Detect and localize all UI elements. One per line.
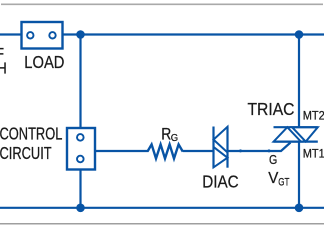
wire joint nub (268, 149, 271, 152)
wire: bottom rail (0, 207, 324, 209)
wire: from top-left junction down to control-circuit box (79, 35, 81, 129)
svg-text:CONTROL: CONTROL (0, 125, 62, 144)
resistor RG (zigzag) (147, 144, 182, 158)
label VGT (268, 170, 289, 189)
wire: top rail left into load (0, 33, 22, 35)
wire joint nub (239, 149, 242, 152)
DIAC D1 (214, 127, 228, 168)
triac (symbol) (274, 127, 318, 141)
node C (bottom-left junction) (76, 204, 85, 213)
svg-text:R: R (161, 125, 171, 143)
wire: from control-circuit box down to bottom rail (79, 170, 81, 208)
node B (top-right junction) (295, 30, 304, 39)
node D (bottom-right junction) (295, 204, 304, 213)
svg-text:V: V (268, 170, 279, 187)
svg-text:CIRCUIT: CIRCUIT (0, 144, 52, 163)
wire: resistor to DIAC (183, 150, 214, 152)
wire: MT2 lead (top rail to triac) (298, 35, 300, 128)
svg-text:GT: GT (278, 176, 289, 188)
svg-text:G: G (269, 152, 277, 167)
svg-text:MT2: MT2 (303, 110, 324, 122)
top grey rule (1, 3, 323, 5)
svg-text:MT1: MT1 (303, 148, 324, 160)
load L1 (box with two terminals) (22, 22, 63, 49)
bottom grey rule (0, 223, 324, 225)
control circuit box (two terminals) (67, 128, 95, 170)
wire: control box to resistor (95, 150, 148, 152)
svg-text:G: G (171, 133, 178, 144)
node A (top-left junction) (76, 30, 85, 39)
wire: top rail from load to right edge (63, 33, 324, 35)
svg-text:DIAC: DIAC (202, 172, 238, 192)
svg-text:H: H (0, 60, 7, 77)
wire: MT1 lead (triac to bottom rail) (298, 142, 300, 208)
svg-text:TRIAC: TRIAC (248, 99, 295, 119)
wire: DIAC to triac gate (with bend) (228, 143, 291, 152)
label RG (161, 125, 178, 143)
svg-text:LOAD: LOAD (24, 52, 64, 72)
